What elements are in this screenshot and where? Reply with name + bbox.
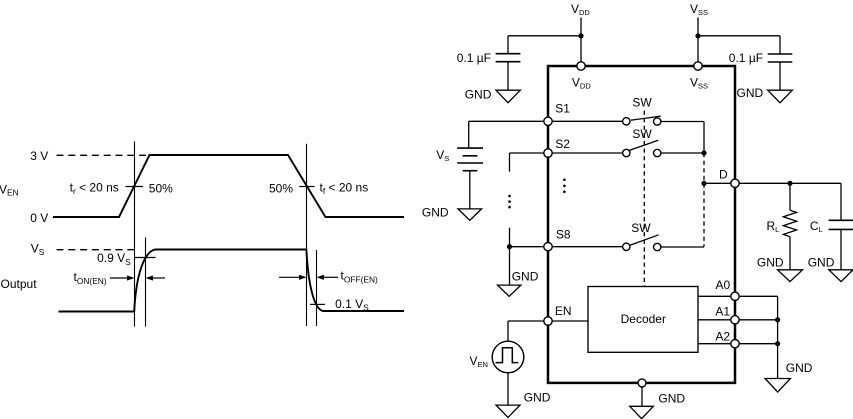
wire VS battery top lead <box>468 121 470 148</box>
node 0.9VS tick <box>135 257 156 259</box>
svg-text:GND: GND <box>786 361 813 375</box>
svg-text:S8: S8 <box>556 228 571 242</box>
wire A1 decoder stub <box>698 319 735 321</box>
wire tOFF left arrow <box>279 275 307 280</box>
node 3V dashed level <box>57 154 150 156</box>
svg-text:A2: A2 <box>715 329 730 343</box>
wire VEN top lead <box>507 321 509 342</box>
junction A1 <box>775 317 780 322</box>
wire CL top lead <box>840 183 842 220</box>
svg-text:tr < 20 ns: tr < 20 ns <box>70 180 119 196</box>
svg-text:tf < 20 ns: tf < 20 ns <box>320 180 369 196</box>
svg-text:VEN: VEN <box>470 354 488 369</box>
wire RL top lead <box>789 183 791 210</box>
wire A1 external <box>735 319 778 321</box>
wire C1 bottom lead <box>507 62 509 90</box>
svg-text:GND: GND <box>512 270 539 284</box>
wire VDD supply down to IC <box>580 18 582 62</box>
pin VDD <box>577 62 585 70</box>
svg-text:Output: Output <box>1 277 38 291</box>
pin A0 <box>731 292 739 300</box>
resistor RL <box>783 210 796 237</box>
wire A2 external <box>735 343 778 345</box>
svg-text:D: D <box>719 168 728 182</box>
wire tOFF right arrow <box>317 275 339 280</box>
source VEN pulse generator <box>492 341 524 373</box>
pin A2 <box>731 340 739 348</box>
svg-text:GND: GND <box>422 206 449 220</box>
ground VEN <box>496 405 520 417</box>
wire A0 external <box>735 295 778 297</box>
node ellipsis inside box <box>563 178 566 193</box>
svg-text:VS: VS <box>31 241 45 257</box>
junction node D bus <box>701 181 706 186</box>
node ellipsis left <box>508 195 511 209</box>
svg-text:S1: S1 <box>555 101 570 115</box>
ground S branch <box>498 285 521 296</box>
svg-text:RL: RL <box>767 219 780 234</box>
svg-text:GND: GND <box>524 390 551 404</box>
ground C2 <box>768 90 793 103</box>
pin A1 <box>731 316 739 324</box>
svg-text:GND: GND <box>808 256 835 270</box>
wire S2 to switch <box>552 152 622 154</box>
wire tON left arrow <box>110 275 135 280</box>
wire S8 to pin <box>510 246 549 248</box>
svg-text:VSS: VSS <box>690 2 708 17</box>
wire node D stub <box>704 182 735 184</box>
wire S1 to switch <box>552 120 622 122</box>
svg-text:VDD: VDD <box>571 2 590 17</box>
wire VDD to bypass cap C1 <box>508 35 581 37</box>
wire S2 branch down upper <box>509 153 511 172</box>
wire branch to ground <box>509 247 511 285</box>
svg-text:SW: SW <box>632 96 652 110</box>
pin GND <box>638 379 646 387</box>
wire SW1 output down <box>703 122 705 154</box>
svg-text:A1: A1 <box>715 304 730 318</box>
junction SW2 output <box>701 150 706 155</box>
svg-text:50%: 50% <box>149 181 173 195</box>
wire D external <box>735 182 841 184</box>
switch SW8 <box>623 235 661 251</box>
wire rise 50% marker line <box>134 142 136 327</box>
svg-text:tOFF(EN): tOFF(EN) <box>341 269 379 285</box>
ground A bus <box>765 379 790 393</box>
junction A2 <box>775 341 780 346</box>
ground RL <box>778 270 803 282</box>
decoder U2 <box>588 287 698 353</box>
capacitor C2 0.1uF <box>768 54 793 62</box>
svg-text:A0: A0 <box>716 278 731 292</box>
wire VSS supply down to IC <box>697 18 699 62</box>
wire SW2 output <box>661 152 704 154</box>
wire A bus down <box>777 296 779 378</box>
wire EN external <box>508 320 548 322</box>
wire rise 0.9VS marker line <box>145 238 147 327</box>
wire VEN waveform <box>53 155 404 217</box>
svg-text:0.1 µF: 0.1 µF <box>729 51 763 65</box>
ground CL <box>829 270 853 282</box>
svg-text:GND: GND <box>658 391 685 405</box>
pin D <box>731 179 739 187</box>
svg-text:tON(EN): tON(EN) <box>74 270 107 286</box>
svg-text:GND: GND <box>465 87 492 101</box>
wire VSS to bypass cap C2 <box>698 35 780 37</box>
junction VDD/C1 <box>578 33 583 38</box>
svg-text:VSS: VSS <box>690 75 708 90</box>
svg-text:CL: CL <box>810 219 823 234</box>
svg-text:VEN: VEN <box>0 182 19 197</box>
svg-text:0.1 µF: 0.1 µF <box>457 51 491 65</box>
wire RL bottom lead <box>789 237 791 270</box>
pin EN <box>544 317 552 325</box>
wire mux bus dashed <box>703 153 705 247</box>
svg-text:EN: EN <box>555 304 572 318</box>
pin S8 <box>544 243 552 251</box>
wire CL bottom lead <box>840 229 842 269</box>
svg-text:0.9 VS: 0.9 VS <box>97 251 131 267</box>
capacitor CL <box>829 220 853 229</box>
svg-text:Decoder: Decoder <box>621 312 666 326</box>
node VS dashed level <box>57 249 135 251</box>
wire output waveform <box>59 250 405 312</box>
svg-text:VS: VS <box>436 148 449 163</box>
wire SW control dashed <box>643 111 645 287</box>
svg-text:3 V: 3 V <box>30 149 48 163</box>
junction VSS/C2 <box>695 33 700 38</box>
battery VS <box>457 148 483 171</box>
node fall 50% tick <box>299 186 314 188</box>
wire VEN bottom lead <box>507 372 509 405</box>
wire C1 top lead <box>507 36 509 54</box>
wire GND pin lead <box>641 383 643 406</box>
svg-text:50%: 50% <box>269 181 293 195</box>
ground VS battery <box>458 209 482 220</box>
wire C2 bottom lead <box>779 62 781 90</box>
junction S8 branch <box>507 244 512 249</box>
wire S2 branch down lower <box>509 228 511 247</box>
wire A0 decoder stub <box>698 295 735 297</box>
switch SW1 <box>623 116 661 125</box>
svg-text:GND: GND <box>757 256 784 270</box>
svg-text:S2: S2 <box>555 137 570 151</box>
wire C2 top lead <box>779 36 781 54</box>
wire SW8 output <box>661 246 704 248</box>
op-amp U1 IC outline <box>548 66 735 383</box>
ground C1 <box>496 90 520 103</box>
svg-text:SW: SW <box>632 127 652 141</box>
svg-text:SW: SW <box>631 221 651 235</box>
svg-text:0 V: 0 V <box>30 211 48 225</box>
node rise 50% tick <box>126 186 144 188</box>
capacitor C1 0.1uF <box>496 54 521 62</box>
wire fall 50% marker line <box>306 144 308 326</box>
wire S8 to switch <box>552 246 622 248</box>
node 0.1VS tick <box>310 303 325 305</box>
pin VSS <box>694 62 702 70</box>
pin S1 <box>544 117 552 125</box>
wire S1 source branch <box>469 120 548 122</box>
junction D load <box>787 181 792 186</box>
wire VS battery bottom lead <box>469 171 471 209</box>
svg-text:VDD: VDD <box>572 75 591 90</box>
wire S2 left branch <box>510 152 549 154</box>
wire fall 0.1VS marker line <box>316 250 318 326</box>
wire EN to decoder <box>548 320 588 322</box>
switch SW2 <box>623 140 661 157</box>
svg-text:GND: GND <box>737 86 764 100</box>
wire tON right arrow <box>146 275 166 280</box>
wire SW1 output <box>661 121 704 123</box>
pin S2 <box>544 149 552 157</box>
wire A2 decoder stub <box>698 343 735 345</box>
ground IC <box>630 406 654 418</box>
svg-text:0.1 VS: 0.1 VS <box>335 297 369 313</box>
